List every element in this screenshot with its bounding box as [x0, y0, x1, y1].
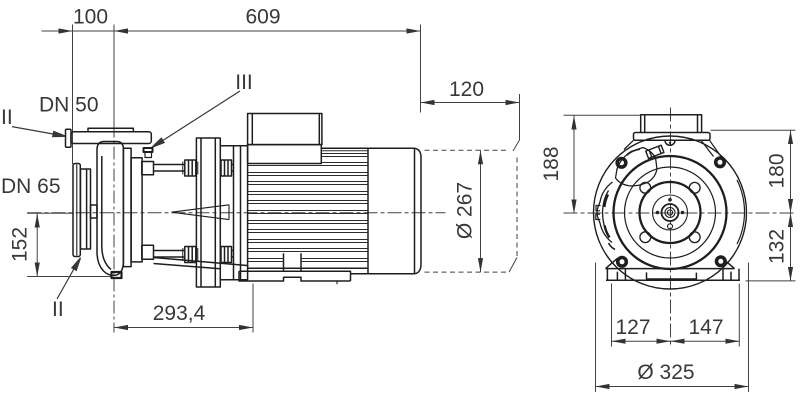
motor end cap	[415, 148, 422, 273]
svg-text:II: II	[1, 106, 13, 129]
centerline vertical end view	[670, 108, 672, 348]
suction flange plate	[73, 164, 80, 257]
svg-text:II: II	[52, 298, 64, 321]
ext 127 left	[611, 284, 613, 347]
motor fins	[248, 151, 368, 262]
shaft circles	[662, 204, 679, 221]
lobe tabs	[596, 206, 601, 220]
base top edge	[606, 268, 735, 270]
right casing echo arc	[737, 180, 745, 244]
leader II bottom	[57, 267, 75, 299]
motor body outline	[248, 145, 415, 280]
tie stud top	[154, 165, 234, 172]
dim 609 line	[114, 30, 421, 32]
adapter ring	[220, 146, 248, 280]
leader II top	[12, 127, 56, 135]
casing diagonals right	[624, 140, 725, 161]
stud boss bottom	[142, 245, 154, 259]
base gusset left	[606, 258, 618, 268]
foot tab right	[723, 269, 739, 280]
suction flange inner line	[76, 165, 78, 256]
drain plug	[112, 272, 122, 278]
svg-text:III: III	[235, 71, 253, 94]
motor foot riser	[284, 253, 302, 271]
casing shape upper left	[616, 148, 658, 186]
casing cover band	[123, 148, 131, 266]
top pipe	[641, 115, 702, 133]
ext 180 top	[711, 129, 796, 131]
ext line 152 top	[27, 212, 73, 214]
left casing lobes	[597, 182, 612, 243]
ext line discharge axis	[113, 25, 115, 125]
hex nut top right	[221, 160, 232, 176]
clearance corner top	[513, 140, 520, 151]
flange bottom hole	[665, 140, 675, 145]
casing shape inner line	[627, 150, 640, 156]
svg-text:293,4: 293,4	[153, 302, 206, 325]
centerline horizontal end view	[564, 212, 796, 214]
ext line 293 right	[252, 284, 254, 333]
dim 180 line	[790, 130, 792, 213]
svg-text:120: 120	[449, 78, 484, 101]
tie stud bottom	[154, 251, 234, 258]
suction hub	[81, 169, 91, 249]
dim 120 line	[421, 102, 520, 104]
shaft boss circle	[653, 195, 688, 230]
svg-text:180: 180	[766, 153, 789, 188]
svg-text:609: 609	[245, 6, 280, 29]
dim 152 line	[36, 214, 38, 277]
flange circle thin	[625, 167, 716, 258]
leader lines	[12, 91, 240, 299]
hex nut bottom left	[185, 247, 196, 263]
svg-text:188: 188	[540, 146, 563, 181]
lantern circle bold	[614, 156, 727, 269]
end view outer circle	[594, 136, 747, 289]
dim 127 line	[612, 340, 671, 342]
dim 293,4 line	[114, 327, 253, 329]
vent plug	[144, 148, 153, 152]
clearance corner bottom	[509, 258, 517, 273]
ext 147 right	[738, 284, 740, 347]
suction hub inner line	[86, 169, 88, 249]
seal housing band	[131, 158, 142, 262]
lobe nub bottom	[609, 243, 616, 250]
clearance dashed vertical	[516, 158, 518, 258]
svg-text:132: 132	[766, 229, 789, 264]
ext line clearance	[519, 94, 521, 140]
lantern plate	[196, 138, 220, 287]
svg-text:100: 100	[73, 6, 108, 29]
volute casing	[97, 142, 123, 276]
washers top	[183, 162, 198, 175]
foot tab left	[607, 269, 625, 280]
hex nut bottom right	[221, 247, 232, 263]
stud boss top	[142, 162, 154, 175]
hex nuts 45deg	[617, 159, 626, 168]
terminal box	[248, 114, 322, 145]
vent plug end view	[646, 145, 664, 158]
dim 188 line	[573, 116, 575, 214]
shaft cone hidden	[172, 205, 230, 220]
svg-text:147: 147	[688, 316, 723, 339]
dim 100 line	[73, 30, 115, 32]
svg-text:DN 65: DN 65	[1, 175, 61, 198]
ext 325 left	[595, 263, 597, 393]
top flange plate	[634, 133, 711, 141]
base bottom line	[606, 279, 740, 281]
dim 147 line	[671, 340, 740, 342]
spigot circle bold	[640, 182, 701, 243]
clearance dashed top	[425, 149, 510, 151]
dim 100 lead line with arrow	[42, 30, 73, 32]
ext line motor end	[420, 25, 422, 113]
center pad	[647, 272, 697, 279]
hub tab	[91, 205, 98, 218]
svg-text:127: 127	[615, 316, 650, 339]
ext 325 right	[748, 263, 750, 393]
ext line 152 bottom	[27, 276, 112, 278]
ext 188 top	[564, 114, 642, 116]
lobe bold segments	[604, 195, 608, 208]
flange holes	[640, 182, 651, 193]
base gusset right	[723, 258, 735, 268]
centerline pump axis vertical	[113, 125, 115, 333]
svg-text:DN 50: DN 50	[39, 94, 99, 117]
svg-text:152: 152	[9, 227, 32, 262]
dim 267 line	[480, 150, 482, 272]
motor foot rail	[239, 271, 351, 281]
ext line suction face	[72, 25, 74, 165]
foot drain tick	[336, 281, 338, 284]
discharge flange boss	[88, 128, 133, 131]
washers bottom	[183, 248, 198, 261]
volute inner wall	[102, 156, 111, 270]
terminal box pedestal	[248, 145, 322, 164]
hex nut top left	[185, 160, 196, 176]
svg-text:Ø 325: Ø 325	[637, 361, 694, 384]
leader III	[162, 91, 240, 141]
shaft small dots	[656, 211, 660, 215]
centerline shaft horizontal	[28, 212, 446, 214]
support strut	[154, 258, 249, 269]
ext 132 bottom	[746, 280, 796, 282]
discharge flange lip left	[66, 129, 72, 147]
clearance dashed bottom	[425, 271, 510, 273]
svg-text:Ø 267: Ø 267	[454, 182, 477, 239]
dim 325 line	[596, 386, 749, 388]
dim 132 line	[790, 213, 792, 281]
discharge flange plate	[71, 132, 151, 144]
